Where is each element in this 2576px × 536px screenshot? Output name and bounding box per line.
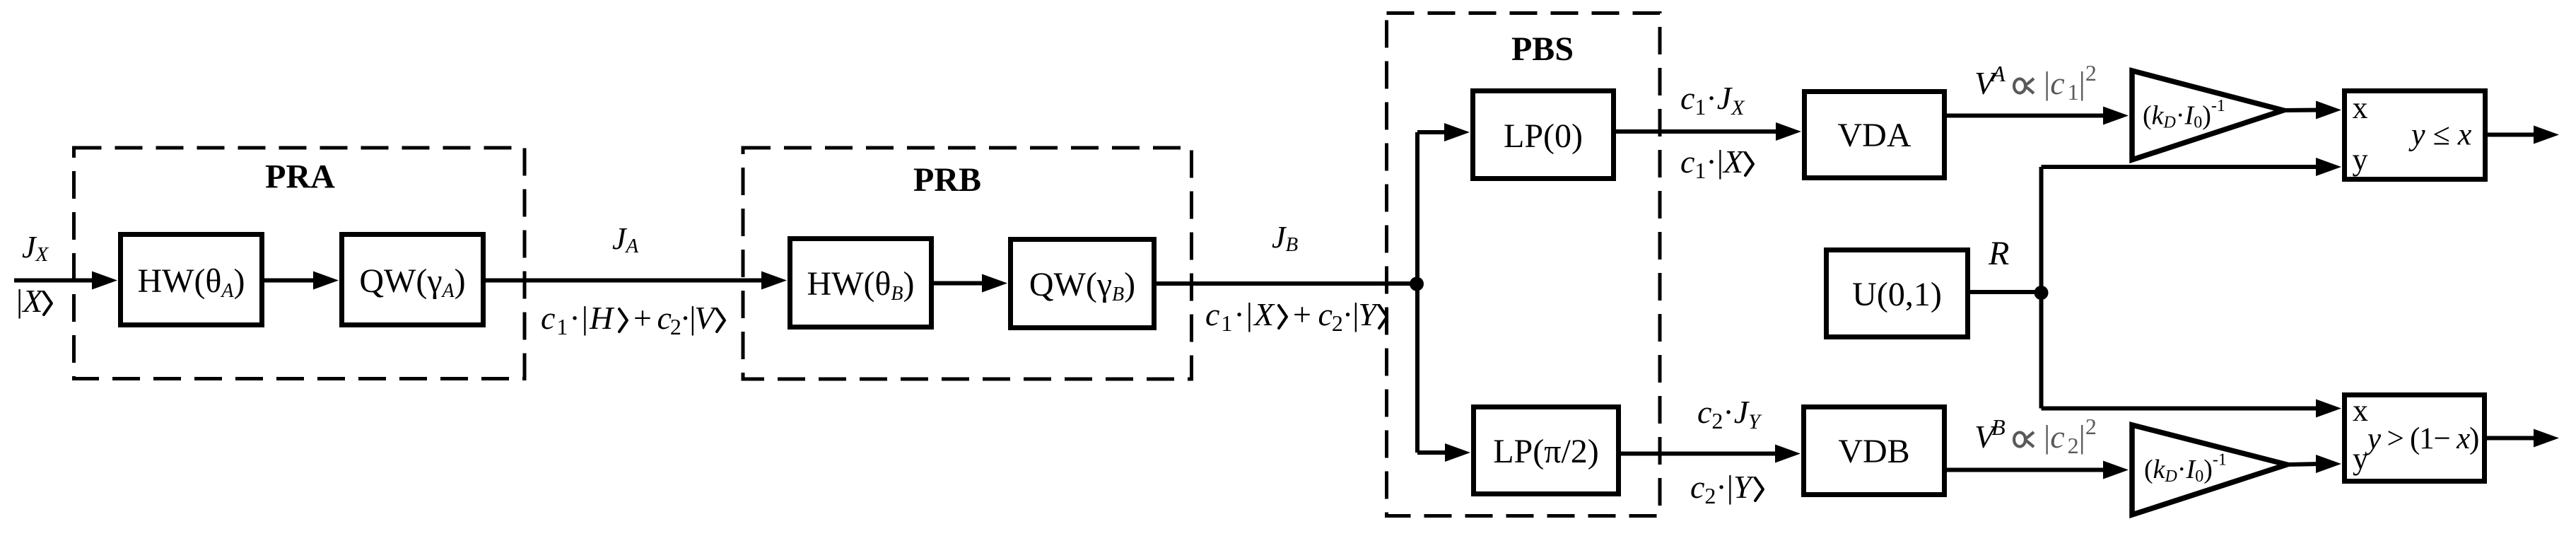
arrowhead into QW(gammaB) (982, 274, 1007, 293)
amplifier triangle (kD I0)^-1 bottom (2132, 425, 2287, 515)
arrowhead into VDB (1775, 445, 1801, 463)
wire J_A (486, 279, 766, 283)
wire amp1 to comparator1 x (2283, 108, 2321, 113)
arrowhead into comparator2 y (2316, 455, 2341, 473)
arrowhead into amp1 (2103, 107, 2129, 125)
arrowhead into HW(thetaA) (92, 272, 117, 290)
arrowhead into comparator1 x (2316, 101, 2341, 120)
dashed box PBS (1387, 13, 1661, 516)
arrowhead into LP(0) (1444, 123, 1470, 141)
svg-text:y: y (2353, 441, 2368, 476)
arrowhead into QW(gammaA) (313, 272, 339, 290)
block QW(gammaB) (1011, 240, 1154, 328)
svg-text:c1·|H: c1·|H (541, 300, 615, 339)
dashed box PRB (743, 148, 1192, 379)
arrowhead into HW(thetaB) (761, 272, 787, 290)
svg-text:y ≤ x: y ≤ x (2408, 117, 2472, 152)
wire HW_B to QW_B (934, 281, 986, 286)
wire branch to LP(0) (1417, 130, 1449, 134)
svg-text:VDB: VDB (1838, 433, 1909, 470)
svg-text:|X: |X (16, 283, 44, 319)
svg-text:y: y (2353, 142, 2368, 177)
svg-text:LP(0): LP(0) (1504, 117, 1583, 155)
block comparator y>(1-x) (2345, 395, 2485, 482)
wire comparator1 out (2488, 133, 2538, 137)
junction node on main line (1410, 277, 1424, 291)
wire R to comparator2 x (2042, 407, 2322, 411)
wire R to comparator1 y (2042, 165, 2322, 169)
wire HW_A to QW_A (264, 279, 317, 283)
wire LP(0) to VDA (1616, 129, 1781, 134)
svg-text:VDA: VDA (1838, 117, 1911, 154)
arrowhead output A (2534, 126, 2559, 144)
block LP(0) (1473, 91, 1614, 179)
svg-text:c1·|X: c1·|X (1680, 144, 1745, 183)
arrowhead into comparator1 y (2316, 158, 2341, 176)
wire LP(pi/2) to VDB (1621, 452, 1776, 456)
wire J_B (1157, 281, 1417, 286)
arrowhead into amp2 (2103, 461, 2129, 479)
wire R (1970, 290, 2041, 294)
block comparator y<=x (2345, 91, 2486, 180)
svg-text:PBS: PBS (1511, 30, 1574, 68)
block HW(thetaB) (790, 239, 932, 327)
wire branch to LP(pi/2) (1417, 450, 1450, 455)
svg-text:c2·|Y: c2·|Y (1690, 469, 1755, 508)
svg-text:x: x (2353, 91, 2368, 125)
svg-text:R: R (1988, 235, 2009, 272)
amplifier triangle (kD I0)^-1 top (2132, 71, 2283, 160)
wire comparator2 out (2487, 436, 2538, 441)
wire PBS branch vertical (1415, 132, 1419, 453)
wire R branch vertical (2039, 167, 2044, 409)
arrowhead into LP(pi/2) (1445, 443, 1470, 462)
wire VDB out (1947, 468, 2107, 472)
block HW(thetaA) (121, 235, 262, 325)
block LP(pi/2) (1474, 407, 1619, 494)
wire VDA out (1947, 114, 2107, 118)
svg-text:U(0,1): U(0,1) (1852, 276, 1942, 313)
arrowhead into comparator2 x (2316, 400, 2341, 418)
block U(0,1) (1827, 250, 1968, 337)
svg-text:PRB: PRB (913, 161, 981, 199)
wire input Jx (14, 279, 95, 283)
block QW(gammaA) (342, 235, 484, 325)
block VDA (1805, 92, 1945, 178)
svg-text:x: x (2353, 393, 2368, 428)
svg-text:LP(π/2): LP(π/2) (1493, 433, 1599, 470)
svg-text:PRA: PRA (265, 158, 335, 196)
arrowhead into VDA (1776, 122, 1801, 141)
svg-text:y > (1− x): y > (1− x) (2365, 422, 2478, 455)
svg-text:c1·|X: c1·|X (1205, 296, 1275, 336)
junction node R (2035, 286, 2049, 300)
block VDB (1804, 407, 1945, 495)
dashed box PRA (74, 148, 525, 379)
arrowhead output B (2534, 429, 2559, 448)
wire amp2 to comparator2 y (2287, 464, 2321, 465)
